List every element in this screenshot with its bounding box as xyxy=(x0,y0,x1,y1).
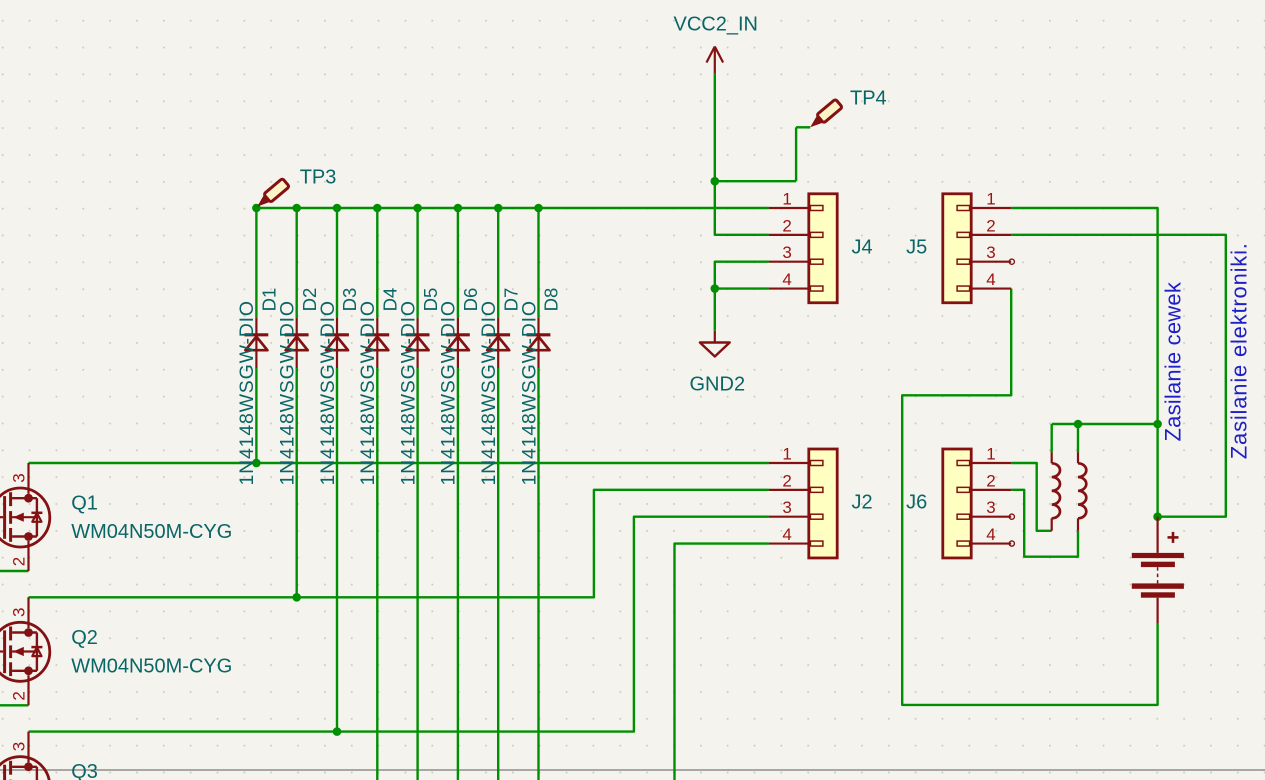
wire J4 pin3 to gnd net xyxy=(715,262,769,289)
wire Q2 source xyxy=(0,704,29,706)
diode D3 xyxy=(325,317,349,368)
junction xyxy=(292,593,301,602)
wire diode column D4 top xyxy=(376,208,378,317)
wire to GND2 xyxy=(714,289,716,331)
svg-text:1N4148WSGW-DIO: 1N4148WSGW-DIO xyxy=(397,300,419,485)
svg-text:GND2: GND2 xyxy=(690,374,746,396)
pin 2 xyxy=(769,489,809,491)
wire VCC2_IN vertical to J4 pin2 xyxy=(715,73,769,235)
svg-text:Zasilanie elektroniki.: Zasilanie elektroniki. xyxy=(1227,242,1252,459)
svg-text:3: 3 xyxy=(986,243,995,262)
transistor Q1 xyxy=(0,463,50,571)
svg-text:2: 2 xyxy=(782,471,791,490)
svg-text:4: 4 xyxy=(986,525,995,544)
pin 1 xyxy=(971,207,1011,209)
power symbol GND2 xyxy=(714,331,716,343)
junction xyxy=(1074,420,1083,429)
wire diode column D8 top xyxy=(537,208,539,317)
diode D1 xyxy=(245,317,269,368)
svg-text:1N4148WSGW-DIO: 1N4148WSGW-DIO xyxy=(277,300,299,485)
dangling pin end xyxy=(1009,259,1014,264)
wire diode column D8 bottom xyxy=(537,368,539,780)
junction xyxy=(711,177,720,186)
svg-text:1N4148WSGW-DIO: 1N4148WSGW-DIO xyxy=(317,300,339,485)
svg-text:Q1: Q1 xyxy=(71,493,98,515)
svg-text:3: 3 xyxy=(782,243,791,262)
svg-text:3: 3 xyxy=(10,742,29,751)
svg-text:2: 2 xyxy=(10,557,29,566)
svg-text:J2: J2 xyxy=(852,492,873,514)
wire diode column D3 top xyxy=(336,208,338,317)
svg-text:2: 2 xyxy=(986,216,995,235)
junction xyxy=(1153,512,1162,521)
pin 3 xyxy=(971,516,1011,518)
svg-text:3: 3 xyxy=(10,608,29,617)
diode D7 xyxy=(486,317,510,368)
transistor Q2 xyxy=(0,597,50,705)
svg-text:4: 4 xyxy=(782,270,791,289)
svg-text:J6: J6 xyxy=(906,492,927,514)
wire TP4 to VCC net xyxy=(715,180,796,182)
pin 2 xyxy=(971,234,1011,236)
diode D2 xyxy=(285,317,309,368)
svg-text:2: 2 xyxy=(10,691,29,700)
wire coil tops xyxy=(1052,423,1158,425)
wire diode column D5 top xyxy=(416,208,418,317)
wire right coil top xyxy=(1077,424,1079,453)
svg-text:WM04N50M-CYG: WM04N50M-CYG xyxy=(71,656,232,678)
svg-text:1N4148WSGW-DIO: 1N4148WSGW-DIO xyxy=(478,300,500,485)
test point TP4 xyxy=(807,99,843,131)
diode D8 xyxy=(527,317,551,368)
transistor Q3 xyxy=(0,732,50,780)
wire diode column D6 top xyxy=(457,208,459,317)
wire left coil top xyxy=(1050,424,1052,453)
svg-text:3: 3 xyxy=(986,498,995,517)
svg-text:1: 1 xyxy=(986,445,995,464)
test point TP3 xyxy=(254,178,290,210)
wire TP4 stub xyxy=(796,126,810,128)
dangling pin end xyxy=(1009,541,1014,546)
dangling pin end xyxy=(1009,514,1014,519)
svg-text:2: 2 xyxy=(782,216,791,235)
svg-text:2: 2 xyxy=(986,471,995,490)
inductor coil left xyxy=(1052,463,1060,518)
svg-text:Q3: Q3 xyxy=(71,761,98,780)
wire J4 pin4 xyxy=(715,287,769,289)
svg-text:D8: D8 xyxy=(541,288,562,312)
wire diode column D4 bottom xyxy=(376,368,378,780)
sheet frame bottom edge xyxy=(0,769,1265,771)
svg-text:3: 3 xyxy=(782,498,791,517)
pin 4 xyxy=(769,287,809,289)
junction xyxy=(333,204,342,213)
connector J2 xyxy=(809,449,837,558)
junction xyxy=(534,204,543,213)
wire diode column D6 bottom xyxy=(457,368,459,780)
junction xyxy=(252,204,261,213)
wire J5 pin1 to coil net xyxy=(1011,208,1157,517)
svg-text:Zasilanie cewek: Zasilanie cewek xyxy=(1160,281,1185,441)
svg-text:1N4148WSGW-DIO: 1N4148WSGW-DIO xyxy=(357,300,379,485)
svg-text:Q2: Q2 xyxy=(71,627,98,649)
pin 2 xyxy=(971,489,1011,491)
wire diode column D2 bottom xyxy=(296,368,298,597)
pin 1 xyxy=(769,207,809,209)
svg-text:1: 1 xyxy=(782,445,791,464)
wire diode column D7 top xyxy=(497,208,499,317)
wire TP4 down xyxy=(795,127,797,181)
wire Q1 source xyxy=(0,570,29,572)
connector J6 xyxy=(943,449,971,558)
connector J4 xyxy=(809,194,837,303)
wire J5 pin2 to electronics net xyxy=(1011,235,1226,517)
svg-text:VCC2_IN: VCC2_IN xyxy=(674,14,758,36)
diode D5 xyxy=(406,317,430,368)
junction xyxy=(711,284,720,293)
svg-text:4: 4 xyxy=(782,525,791,544)
junction xyxy=(373,204,382,213)
junction xyxy=(413,204,422,213)
battery xyxy=(1132,517,1184,623)
wire diode column D5 bottom xyxy=(416,368,418,780)
junction xyxy=(1153,420,1162,429)
svg-text:1N4148WSGW-DIO: 1N4148WSGW-DIO xyxy=(438,300,460,485)
junction xyxy=(454,204,463,213)
pin 3 xyxy=(971,261,1011,263)
inductor coil right xyxy=(1078,463,1086,518)
pin 3 xyxy=(769,516,809,518)
wire diode column D7 bottom xyxy=(497,368,499,780)
diode D6 xyxy=(446,317,470,368)
pin 3 xyxy=(769,261,809,263)
wire J2 pin4 down xyxy=(675,544,769,780)
svg-text:1N4148WSGW-DIO: 1N4148WSGW-DIO xyxy=(236,300,258,485)
junction xyxy=(494,204,503,213)
svg-text:WM04N50M-CYG: WM04N50M-CYG xyxy=(71,521,232,543)
svg-text:3: 3 xyxy=(10,473,29,482)
svg-text:1: 1 xyxy=(782,190,791,209)
svg-text:TP4: TP4 xyxy=(850,88,887,110)
battery plus sign xyxy=(1168,536,1179,539)
pin 2 xyxy=(769,234,809,236)
connector J5 xyxy=(943,194,971,303)
wire Q2 drain to J2 pin2 xyxy=(29,490,769,597)
wire diode column D3 bottom xyxy=(336,368,338,732)
junction xyxy=(333,727,342,736)
svg-text:TP3: TP3 xyxy=(300,167,337,189)
svg-text:J5: J5 xyxy=(906,237,927,259)
wire diode column D1 bottom xyxy=(255,368,257,463)
svg-text:J4: J4 xyxy=(852,237,873,259)
wire J5 pin4 to battery minus xyxy=(902,289,1157,705)
wire Q3 drain to J2 pin3 xyxy=(29,517,769,732)
wire Q1 drain to J2 pin1 xyxy=(29,462,769,464)
diode D4 xyxy=(365,317,389,368)
pin 4 xyxy=(971,287,1011,289)
wire J6 pin1 to left coil xyxy=(1011,463,1051,531)
svg-text:4: 4 xyxy=(986,270,995,289)
pin 4 xyxy=(769,542,809,544)
wire diode column D2 top xyxy=(296,208,298,317)
power symbol VCC2_IN xyxy=(714,47,716,74)
pin 4 xyxy=(971,542,1011,544)
wire diode column D1 top xyxy=(255,208,257,317)
svg-text:1N4148WSGW-DIO: 1N4148WSGW-DIO xyxy=(518,300,540,485)
junction xyxy=(292,204,301,213)
svg-text:1: 1 xyxy=(986,190,995,209)
wire top bus TP3 to J4 pin1 xyxy=(256,207,769,209)
junction xyxy=(252,459,261,468)
wire J6 pin2 to right coil xyxy=(1011,490,1078,557)
pin 1 xyxy=(769,462,809,464)
pin 1 xyxy=(971,462,1011,464)
